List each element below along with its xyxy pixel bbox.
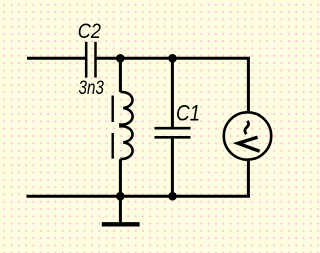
node junction dot top-left [116, 54, 125, 63]
capacitor C2 [86, 42, 95, 78]
ground stub wire [119, 196, 122, 222]
capacitor C1 [155, 128, 191, 137]
ground bar [102, 222, 140, 226]
wire top from C2 right plate to top-right corner then down to voltmeter [97, 58, 249, 112]
node junction dot bottom-left [116, 192, 125, 201]
wire top-left from left end to C2 left plate [27, 57, 85, 60]
voltmeter V mark [238, 137, 260, 151]
inductor L1 coil [113, 92, 133, 159]
svg-text:3n3: 3n3 [79, 76, 105, 98]
node junction dot bottom-right [168, 192, 177, 201]
wire C1 branch top [171, 58, 174, 127]
voltmeter tilde mark [245, 121, 249, 134]
wire voltmeter bottom lead [247, 160, 250, 197]
svg-text:C2: C2 [78, 20, 101, 44]
wire bottom rail [27, 195, 250, 198]
wire inductor branch top [119, 58, 122, 92]
wire C1 branch bottom [171, 139, 174, 197]
svg-text:C1: C1 [176, 101, 200, 126]
wire inductor branch bottom [119, 159, 122, 196]
node junction dot top-right [168, 54, 177, 63]
voltmeter U1 circle [224, 112, 271, 159]
